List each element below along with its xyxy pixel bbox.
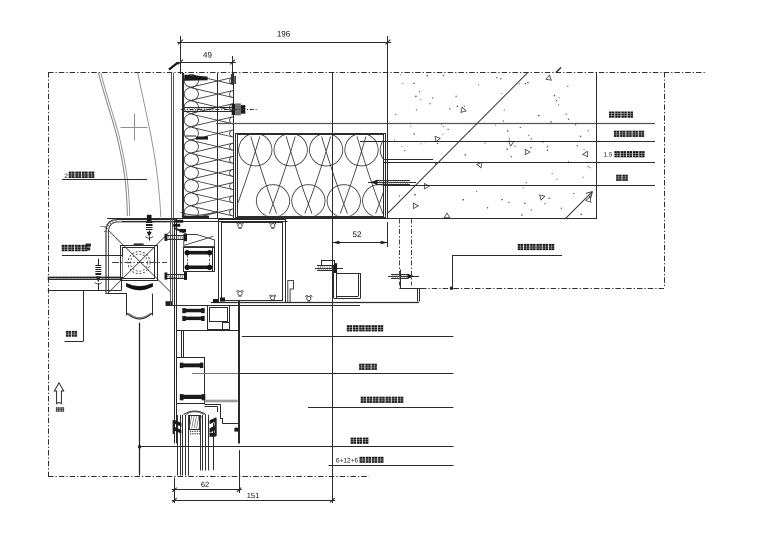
curved aluminum panel inner line — [138, 73, 161, 217]
label thermal break strip — [359, 364, 364, 370]
round pipe dotted circles — [128, 252, 150, 274]
anchor bolt upper (points left) — [368, 182, 416, 184]
label embed part — [616, 175, 621, 181]
embed plate vertical — [383, 159, 385, 218]
pipe center stem — [139, 323, 141, 476]
centerline cross mark — [121, 127, 148, 129]
concrete slab left edge / dim extension — [387, 36, 389, 219]
leader line for aluminum panel label — [62, 179, 147, 181]
svg-text:62: 62 — [201, 480, 209, 489]
label insulated aluminum door — [347, 325, 352, 331]
exterior direction arrow — [54, 383, 63, 404]
dash-dot border right — [664, 72, 666, 288]
rockwool strip insulation hatch — [184, 75, 233, 219]
left transom band hatched top edge — [48, 277, 122, 279]
dash-dot interior line y288 — [421, 288, 664, 290]
leader line 3 — [384, 162, 655, 164]
concrete diagonal short with arrow — [565, 192, 593, 220]
rockwool strip left edge — [182, 73, 184, 219]
dimension 151 line — [172, 500, 335, 502]
insulating glass pane inner — [200, 415, 202, 471]
dimension 49 line — [177, 62, 236, 64]
upper frame box — [184, 248, 215, 272]
mullion face verticals — [170, 219, 172, 306]
X diagonal braces — [109, 231, 172, 293]
assembly bottom edge — [106, 293, 127, 295]
left glazing gaskets — [174, 420, 181, 427]
black corner bits bottom right — [234, 428, 238, 432]
dimension 62 extension lines — [174, 478, 176, 504]
gasket blocks above square profile — [213, 299, 218, 303]
svg-text:2: 2 — [64, 173, 68, 180]
strip black clip bottom — [184, 216, 209, 219]
leader setting block with dot — [138, 445, 141, 448]
inner verticals lower frame — [181, 330, 183, 357]
screw bosses on tube — [237, 223, 244, 229]
sealant bead arc under strip — [181, 211, 219, 215]
label beam with L leader — [66, 331, 71, 337]
steel angle at slab edge — [399, 288, 421, 290]
gasket dashes above square — [134, 243, 144, 245]
black arc band below square — [126, 283, 152, 290]
square profile below tube — [208, 306, 230, 330]
strip black clip top — [184, 75, 207, 81]
thermal break bars upper pair — [188, 251, 209, 255]
secondary bottom line y305.8 — [166, 305, 360, 307]
rockwool strip right edge — [233, 73, 235, 219]
anchor bolt lower (points right) — [388, 276, 419, 278]
grey vertical at band right — [122, 257, 124, 278]
anchor plate line — [400, 270, 402, 289]
anchor bolt through strip — [184, 107, 233, 109]
tick glyph above border — [169, 63, 178, 70]
svg-text:6+12+6: 6+12+6 — [336, 458, 359, 465]
strip black clip middle — [196, 137, 208, 140]
grey continuation of thermal leader — [192, 373, 238, 375]
dimension 196 line — [181, 42, 389, 44]
window frame right edge — [238, 300, 240, 444]
insulating glass pane outer — [177, 415, 179, 476]
steel tube outer — [219, 220, 286, 303]
leader sealant — [308, 407, 454, 409]
svg-text:1.5: 1.5 — [604, 152, 613, 159]
svg-text:49: 49 — [203, 51, 212, 60]
pipe centerline — [112, 262, 167, 264]
screw left of assembly — [98, 259, 100, 266]
dash-dot border top — [48, 72, 706, 74]
gasket cluster below soffit — [175, 220, 183, 223]
profile bottom line y330 — [176, 330, 240, 332]
soffit second line under strip — [122, 221, 287, 223]
leader line 4 — [384, 185, 656, 187]
concrete slab right edge — [596, 72, 598, 219]
exterior text — [56, 407, 60, 411]
leader thermal break — [238, 373, 454, 375]
leader door — [242, 336, 454, 338]
leader glass — [329, 465, 454, 467]
pipe walls below — [126, 294, 128, 316]
dimension 62 line — [172, 489, 242, 491]
assembly outer rounded profile — [106, 220, 176, 294]
glass spacer block — [190, 416, 200, 430]
frame right wall — [212, 248, 214, 272]
label self adhesive sealant — [361, 397, 366, 403]
long bottom line y302 — [211, 302, 419, 304]
glazing clip right of tube — [288, 281, 294, 302]
black corner bit left of bottom line — [166, 301, 173, 305]
dash-dot border left — [48, 72, 50, 476]
mullion face lines left of strip — [171, 73, 173, 219]
right glazing gaskets — [210, 417, 217, 424]
concrete diagonal hatch line — [388, 72, 529, 213]
concrete slab bottom edge — [107, 218, 596, 220]
curved aluminum panel outer skin (double line) — [99, 73, 128, 216]
dimension 196 extension left — [180, 36, 182, 74]
rockwool strip middle sheet line — [217, 73, 219, 219]
steel tube inner wall — [222, 223, 283, 301]
leader line mid label — [452, 255, 562, 257]
waterproof membrane line — [216, 123, 655, 125]
svg-text:196: 196 — [277, 30, 291, 39]
svg-text:52: 52 — [353, 230, 362, 239]
dash-dot border bottom — [48, 476, 369, 478]
short grey line left of corner — [100, 226, 106, 228]
snap cover profile — [184, 234, 215, 246]
leader line runner label — [62, 255, 123, 257]
left transom band bottom edge — [48, 290, 122, 292]
svg-text:151: 151 — [247, 491, 260, 500]
tick on top border — [556, 68, 561, 73]
glazing bead arcs — [184, 411, 206, 415]
label rock wool insulation — [609, 112, 614, 118]
label inner leader mid — [518, 244, 523, 250]
C bracket profile — [333, 265, 335, 298]
label aluminum cross runner — [62, 245, 68, 251]
lower frame box — [177, 358, 205, 404]
horizontal fixing bolt upper — [165, 234, 168, 241]
leader line 2 — [360, 141, 655, 143]
anchor centerlines dash-dot vertical — [399, 219, 401, 286]
dimension 52 extension right — [387, 222, 389, 247]
corner hatch ticks — [115, 218, 117, 221]
membrane fold mark top right — [231, 74, 233, 85]
bracket bolt — [315, 268, 343, 270]
thermal break bars lower pair — [181, 363, 202, 367]
transom top track lines — [107, 218, 109, 220]
thermal break bars second pair — [184, 309, 203, 313]
label fireproof insulation board — [614, 131, 619, 137]
screw top of assembly — [147, 215, 152, 221]
pipe bottom cap arcs — [127, 313, 152, 319]
inner steel tube square — [121, 246, 158, 281]
reference vertical line x332 — [332, 73, 334, 504]
dimension 52 line with arrows — [332, 242, 387, 244]
step profile lower right — [205, 404, 221, 406]
grey sill bar — [205, 400, 238, 403]
embed plate top flange — [383, 159, 433, 161]
label setting block — [351, 438, 356, 444]
clip at assembly left edge — [86, 244, 91, 247]
dimension 49 extension right — [232, 56, 234, 74]
rockwool band border — [236, 134, 386, 218]
concrete aggregate triangles — [546, 75, 552, 81]
concrete stipple dots — [394, 74, 592, 215]
horizontal fixing bolt lower — [165, 273, 168, 280]
rockwool band insulation hatch — [234, 134, 431, 216]
bracket plate on tube — [322, 261, 335, 266]
